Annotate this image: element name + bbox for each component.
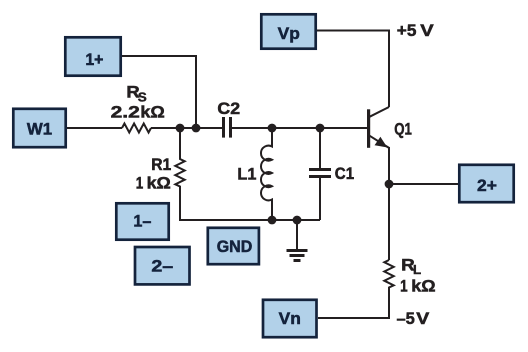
svg-text:–5: –5 xyxy=(397,309,415,328)
svg-text:Vp: Vp xyxy=(278,24,300,43)
terminal box 1+ xyxy=(65,37,120,75)
svg-text:L: L xyxy=(413,262,421,277)
node junction G (output node) xyxy=(385,180,394,189)
svg-text:kΩ: kΩ xyxy=(140,103,164,122)
value label R1 1 kOhm xyxy=(136,173,171,192)
svg-text:2–: 2– xyxy=(151,257,173,276)
svg-text:V: V xyxy=(416,309,430,328)
value label 2.2 kOhm xyxy=(111,103,165,122)
wire Vn to RL bottom xyxy=(318,317,389,318)
svg-text:GND: GND xyxy=(217,237,253,256)
wire junction G to RL xyxy=(388,184,390,260)
terminal box W1 xyxy=(13,109,65,147)
power label +5 V xyxy=(397,21,435,40)
wire W1 to RS xyxy=(67,127,122,129)
node junction C (top of L1) xyxy=(268,124,277,133)
label C2 xyxy=(217,99,240,118)
svg-text:1–: 1– xyxy=(133,212,151,231)
svg-text:Q1: Q1 xyxy=(394,119,412,138)
capacitor C1 xyxy=(309,128,331,220)
wire Vp to collector xyxy=(317,31,389,108)
resistor RL xyxy=(384,260,393,318)
terminal box 1- xyxy=(116,203,168,239)
node junction D (top of C1) xyxy=(316,124,325,133)
wire C2 to transistor base xyxy=(232,127,367,129)
svg-text:kΩ: kΩ xyxy=(411,277,435,296)
svg-text:1: 1 xyxy=(136,173,144,192)
wire bottom rail R1 to C1 xyxy=(179,219,320,221)
wire 1+ to junction B xyxy=(122,56,196,124)
label Q1 xyxy=(394,119,412,138)
node junction E (bottom of L1) xyxy=(268,216,277,225)
terminal box Vn xyxy=(263,300,317,337)
wire RS to C2 xyxy=(151,127,222,129)
terminal box Vp xyxy=(261,14,315,48)
resistor R1 xyxy=(175,128,184,220)
svg-text:kΩ: kΩ xyxy=(147,173,171,192)
svg-text:2+: 2+ xyxy=(477,176,497,195)
power label -5 V xyxy=(397,309,431,328)
svg-text:2.2: 2.2 xyxy=(111,103,140,122)
label RL xyxy=(401,256,421,277)
capacitor C2 xyxy=(224,117,231,138)
terminal box 2- xyxy=(135,247,190,284)
node junction F (ground stem) xyxy=(293,216,302,225)
svg-text:R1: R1 xyxy=(151,155,171,174)
transistor Q1 xyxy=(367,107,389,148)
svg-text:L1: L1 xyxy=(237,164,256,183)
svg-text:1: 1 xyxy=(400,277,408,296)
inductor L1 xyxy=(261,128,272,220)
wire junction G to 2+ xyxy=(389,183,458,185)
svg-text:C2: C2 xyxy=(217,99,240,118)
value label RL 1 kOhm xyxy=(400,277,435,296)
node junction B xyxy=(192,124,201,133)
ground xyxy=(287,220,308,261)
svg-text:+5: +5 xyxy=(397,21,417,40)
label R1 xyxy=(151,155,171,174)
svg-text:C1: C1 xyxy=(335,164,354,183)
node junction A xyxy=(176,124,185,133)
svg-text:V: V xyxy=(420,21,434,40)
svg-text:1+: 1+ xyxy=(85,50,103,69)
svg-text:Vn: Vn xyxy=(279,309,301,328)
resistor RS xyxy=(122,124,151,133)
terminal box GND xyxy=(208,228,259,264)
wire emitter to junction G xyxy=(388,147,390,184)
label L1 xyxy=(237,164,256,183)
label RS xyxy=(126,83,147,105)
svg-text:W1: W1 xyxy=(27,120,52,139)
terminal box 2+ xyxy=(459,165,513,202)
label C1 xyxy=(335,164,354,183)
